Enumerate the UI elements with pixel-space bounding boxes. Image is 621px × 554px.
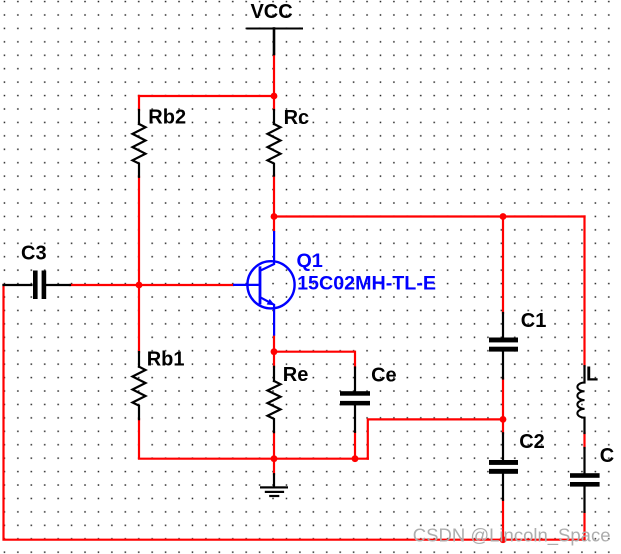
svg-text:C: C bbox=[600, 445, 614, 467]
svg-text:C1: C1 bbox=[521, 310, 547, 332]
svg-text:Q1: Q1 bbox=[297, 250, 323, 272]
svg-text:CSDN @Lincoln_Space: CSDN @Lincoln_Space bbox=[413, 525, 611, 547]
svg-text:Rc: Rc bbox=[284, 107, 310, 129]
svg-text:Ce: Ce bbox=[371, 364, 397, 386]
svg-text:Re: Re bbox=[283, 364, 309, 386]
svg-text:15C02MH-TL-E: 15C02MH-TL-E bbox=[297, 273, 436, 295]
svg-text:C2: C2 bbox=[519, 431, 545, 453]
svg-text:VCC: VCC bbox=[250, 1, 292, 23]
svg-text:Rb2: Rb2 bbox=[148, 107, 186, 129]
svg-text:C3: C3 bbox=[21, 242, 47, 264]
svg-text:Rb1: Rb1 bbox=[147, 349, 185, 371]
svg-text:L: L bbox=[586, 363, 598, 385]
